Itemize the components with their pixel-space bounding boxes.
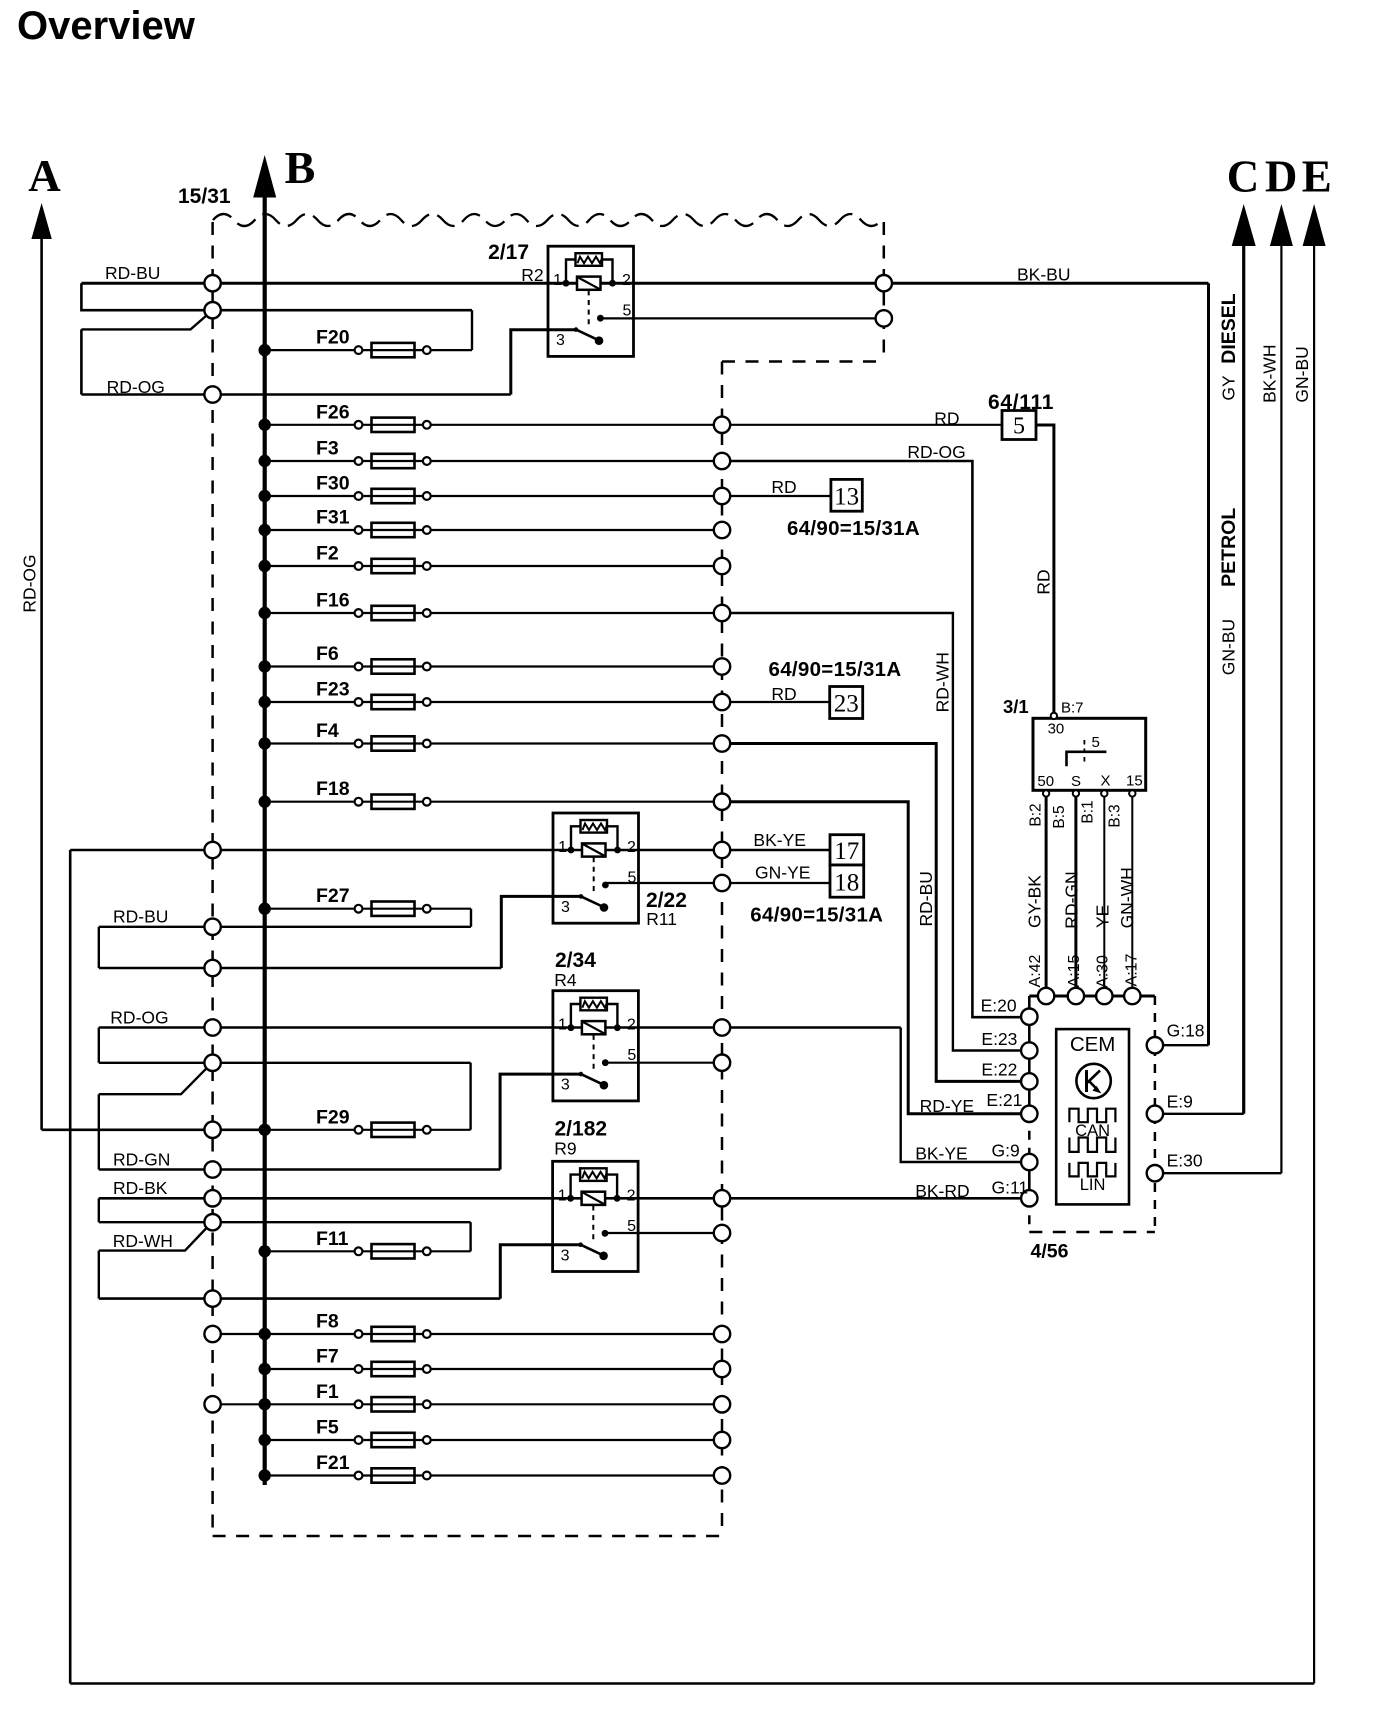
wire RD from 64/111:5 to ignition switch 3/1 B:7: [1036, 425, 1054, 713]
wire BK-BU down right side: [1207, 283, 1210, 1045]
fuse F30: [355, 492, 363, 500]
svg-text:5: 5: [627, 1218, 636, 1235]
svg-text:18: 18: [834, 870, 859, 897]
node fusebox right pass-through (F16): [714, 605, 730, 621]
junction bus B / F7: [259, 1363, 271, 1375]
CEM 4/56 dashed boundary: [1029, 995, 1155, 998]
immobilizer K symbol: [1076, 1064, 1110, 1098]
svg-text:F2: F2: [316, 543, 339, 565]
CEM pin E:30: [1147, 1165, 1163, 1181]
node fusebox right pass-through (F26): [714, 417, 730, 433]
node fusebox right pass-through (F21): [714, 1467, 730, 1483]
wire fuse F20 row: [265, 349, 472, 351]
wire RD-BU U-turn: [98, 927, 100, 968]
junction bus B / F27: [259, 903, 271, 915]
node 15/31 pass-through (2/182 pin3 row): [204, 1290, 220, 1306]
svg-text:RD-OG: RD-OG: [107, 377, 165, 397]
svg-text:64/90=15/31A: 64/90=15/31A: [769, 658, 902, 681]
svg-text:RD-BU: RD-BU: [916, 871, 936, 926]
wire BK-BU into CEM G:18: [1155, 1044, 1209, 1046]
wire arrow E (GN-BU) vertical: [1313, 243, 1315, 1684]
CEM pin A:42: [1038, 988, 1054, 1004]
svg-text:64/90=15/31A: 64/90=15/31A: [787, 517, 920, 540]
wire RD-BU row to relay 2/17 pins 1-2 and BK-BU to right: [81, 282, 1208, 285]
node 15/31 pass-through (2/17 pin1 row): [204, 275, 220, 291]
wire RD-GN riser to relay 2/34 pin 3: [500, 1074, 581, 1169]
svg-text:F16: F16: [316, 590, 350, 612]
fusebox 15/31 dashed left edge: [211, 222, 214, 1536]
wire link down to RD-GN row: [98, 1094, 100, 1169]
svg-text:B:2: B:2: [1028, 803, 1045, 826]
svg-text:RD-OG: RD-OG: [110, 1007, 168, 1027]
wire F20 output riser: [471, 310, 473, 350]
relay 2/182 R9 box: [553, 1161, 639, 1271]
svg-text:F20: F20: [316, 327, 350, 349]
node fusebox right pass-through (F7): [714, 1361, 730, 1377]
node fusebox right pass-through (F4): [714, 735, 730, 751]
node fusebox right pass-through (2/34 row): [714, 1019, 730, 1035]
svg-text:F5: F5: [316, 1417, 339, 1439]
LIN symbol: [1069, 1163, 1115, 1177]
svg-text:BK-YE: BK-YE: [753, 830, 806, 850]
svg-text:F21: F21: [316, 1452, 350, 1474]
node 15/31 pass-through (RD-GN): [204, 1161, 220, 1177]
wire 3/1 pin 15 to CEM A:17: [1131, 793, 1133, 988]
svg-text:Overview: Overview: [17, 4, 196, 48]
fuse F21: [355, 1472, 363, 1480]
svg-text:RD-BU: RD-BU: [105, 263, 160, 283]
svg-text:BK-WH: BK-WH: [1259, 345, 1279, 403]
wire CEM E:9 to C: [1155, 1113, 1244, 1115]
svg-text:50: 50: [1037, 773, 1054, 790]
svg-text:LIN: LIN: [1080, 1176, 1106, 1194]
power arrow B (15/31 bus): [253, 155, 276, 198]
wire fuse F21 row: [265, 1474, 722, 1476]
svg-text:GY: GY: [1219, 375, 1239, 401]
svg-text:B:5: B:5: [1051, 805, 1068, 828]
wire A feed (RD-OG) vertical: [40, 237, 43, 1130]
svg-text:R2: R2: [521, 265, 543, 285]
svg-text:PETROL: PETROL: [1218, 508, 1240, 587]
svg-text:E:9: E:9: [1167, 1092, 1193, 1112]
svg-text:1: 1: [558, 1187, 567, 1204]
fusebox dashed upper right edge: [883, 222, 886, 362]
terminal box 18: [830, 865, 864, 897]
CEM pin E:23: [1021, 1042, 1037, 1058]
svg-text:E:22: E:22: [981, 1060, 1017, 1080]
node fusebox right pass-through (2/182 row): [714, 1190, 730, 1206]
junction bus B / F1: [259, 1398, 271, 1410]
node fusebox right pass-through (F6): [714, 658, 730, 674]
svg-text:15: 15: [1126, 773, 1143, 790]
svg-text:2: 2: [627, 1187, 636, 1204]
svg-text:YE: YE: [1093, 905, 1113, 928]
svg-text:F29: F29: [316, 1106, 350, 1128]
wire RD-BU from F4 to CEM E:22: [722, 744, 1029, 1082]
junction bus B / F26: [259, 419, 271, 431]
junction bus B / F16: [259, 607, 271, 619]
svg-text:RD-BU: RD-BU: [113, 907, 168, 927]
svg-text:3: 3: [561, 1077, 570, 1094]
svg-text:RD: RD: [1034, 569, 1054, 594]
svg-text:BK-RD: BK-RD: [915, 1181, 969, 1201]
node fusebox right pass-through (2/22 pin5 row): [714, 875, 730, 891]
relay 2/34 R4 box: [553, 991, 639, 1101]
svg-text:4/56: 4/56: [1031, 1241, 1069, 1263]
wire RD-YE from F18 to CEM E:21: [722, 802, 1029, 1114]
junction bus B / F6: [259, 660, 271, 672]
svg-text:64/90=15/31A: 64/90=15/31A: [750, 904, 883, 927]
node fusebox right pass-through (F5): [714, 1432, 730, 1448]
svg-text:RD-GN: RD-GN: [1062, 871, 1082, 928]
CEM pin G:18: [1147, 1037, 1163, 1053]
node 15/31 pass-through (F11 return): [204, 1214, 220, 1230]
junction bus B / F23: [259, 696, 271, 708]
fuse F20: [355, 346, 363, 354]
node fusebox right pass-through (F18): [714, 794, 730, 810]
svg-text:2: 2: [627, 839, 636, 856]
wire riser to relay 2/182 pin 3: [500, 1245, 581, 1299]
power arrow A: [31, 203, 51, 239]
svg-text:13: 13: [834, 484, 859, 511]
fuse F27: [355, 905, 363, 913]
node fusebox right pass-through (F3): [714, 453, 730, 469]
wire RD-WH from F16 to CEM E:23: [722, 613, 1029, 1051]
connector 64/111 pin 5 box: [1002, 411, 1036, 440]
wire link down to relay 2/182 pin3 row: [98, 1251, 100, 1299]
wire fuse F29 row: [265, 1129, 471, 1131]
fusebox dashed bottom edge: [213, 1535, 722, 1538]
wire fuse F2 row: [265, 565, 722, 567]
svg-text:F4: F4: [316, 720, 339, 742]
CEM pin A:17: [1124, 988, 1140, 1004]
svg-text:F8: F8: [316, 1311, 339, 1333]
wire A feed to F29 row: [42, 1129, 265, 1132]
terminal box 13: [831, 479, 862, 511]
svg-text:BK-YE: BK-YE: [915, 1144, 968, 1164]
power arrow E: [1303, 204, 1326, 246]
wire RD-OG row to relay 2/34 pins 1-2: [99, 1026, 901, 1029]
node 15/31 pass-through (F20 return): [204, 302, 220, 318]
svg-text:B: B: [285, 142, 316, 193]
svg-text:RD-YE: RD-YE: [920, 1096, 974, 1116]
wire BK-YE from relay 2/34 to CEM G:9: [901, 1028, 1030, 1163]
junction bus B / F18: [259, 796, 271, 808]
node 15/31 pass-through (F8): [204, 1326, 220, 1342]
svg-text:2/182: 2/182: [555, 1117, 608, 1140]
wire fuse F11 row: [265, 1250, 471, 1252]
wire arrow C (GN-BU PETROL / GY DIESEL) vertical: [1242, 243, 1245, 1114]
CEM pin E:22: [1021, 1073, 1037, 1089]
CAN symbol: [1069, 1109, 1115, 1123]
CEM pin E:21: [1021, 1106, 1037, 1122]
wire riser to relay 2/22 pin 3: [501, 896, 581, 968]
svg-text:A:42: A:42: [1027, 954, 1044, 987]
wire RD-BK U-turn: [98, 1198, 100, 1222]
svg-text:R9: R9: [554, 1139, 576, 1159]
junction bus B / F30: [259, 490, 271, 502]
wire RD-OG riser to relay 2/17 pin 3: [511, 330, 577, 395]
node fusebox right pass-through (2/34 pin5): [714, 1055, 730, 1071]
node fusebox right pass-through (F30): [714, 488, 730, 504]
CEM pin E:9: [1147, 1106, 1163, 1122]
svg-text:F11: F11: [316, 1228, 349, 1250]
wire relay 2/17 pin 5 stub: [600, 317, 883, 319]
svg-text:F23: F23: [316, 679, 350, 701]
node 15/31 pass-through (RD-BU): [204, 919, 220, 935]
wire fuse F1 row: [213, 1403, 722, 1405]
svg-text:B:7: B:7: [1061, 700, 1084, 717]
svg-text:17: 17: [834, 838, 859, 865]
CEM pin E:20: [1021, 1009, 1037, 1025]
CEM pin G:9: [1021, 1154, 1037, 1170]
svg-text:R4: R4: [554, 970, 577, 990]
svg-text:5: 5: [628, 870, 637, 887]
svg-text:RD: RD: [934, 409, 959, 429]
wire row to relay 2/22 pin 3: [99, 967, 502, 970]
relay 2/17 R2 box: [548, 246, 634, 356]
svg-text:RD-OG: RD-OG: [20, 554, 40, 612]
svg-text:A:17: A:17: [1123, 953, 1140, 986]
CEM pin A:15: [1068, 988, 1084, 1004]
fuse F6: [355, 663, 363, 671]
svg-text:F18: F18: [316, 778, 350, 800]
wire fuse F5 row: [265, 1439, 722, 1441]
svg-text:G:11: G:11: [992, 1178, 1029, 1198]
wire link diagonal at 15/31 connector: [81, 316, 206, 330]
junction bus B / F11: [259, 1245, 271, 1257]
fuse F11: [355, 1247, 363, 1255]
node 15/31 pass-through (F1): [204, 1396, 220, 1412]
svg-text:F27: F27: [316, 885, 350, 907]
svg-text:E: E: [1302, 152, 1332, 202]
node pass-through (2/17 pin2 row): [876, 275, 892, 291]
wire fuse F7 row: [265, 1368, 722, 1370]
junction bus B / F5: [259, 1434, 271, 1446]
fuse F1: [355, 1400, 363, 1408]
svg-text:2: 2: [622, 272, 631, 289]
svg-text:GN-BU: GN-BU: [1292, 346, 1312, 402]
svg-text:23: 23: [834, 691, 859, 718]
fuse F29: [355, 1126, 363, 1134]
wire RD-BU row (F27 return): [99, 926, 471, 928]
wire link down to RD-OG row: [80, 329, 83, 394]
node fusebox right pass-through (2/22 pin1 row): [714, 842, 730, 858]
fuse F26: [355, 421, 363, 429]
svg-text:E:21: E:21: [986, 1090, 1022, 1110]
svg-text:B:3: B:3: [1107, 804, 1124, 827]
svg-text:30: 30: [1048, 721, 1065, 738]
fusebox dashed right edge: [721, 362, 724, 1537]
wire relay 2/34 pin 5 stub: [605, 1062, 722, 1064]
svg-text:F30: F30: [316, 473, 350, 495]
svg-text:R11: R11: [646, 909, 677, 929]
wire F27 drop to RD-BU row: [470, 909, 472, 927]
wire fuse F4 row: [265, 742, 722, 744]
svg-text:F7: F7: [316, 1346, 339, 1368]
wire RD-OG row: [81, 393, 510, 396]
wire fuse F26 row: [265, 424, 722, 426]
svg-text:A: A: [28, 151, 61, 201]
wire fuse F6 row: [265, 665, 722, 667]
svg-text:5: 5: [1013, 414, 1025, 440]
svg-text:D: D: [1265, 152, 1298, 202]
wire F11 return row: [99, 1221, 471, 1223]
node 15/31 pass-through (A feed): [204, 1122, 220, 1138]
svg-text:F31: F31: [316, 507, 350, 529]
svg-text:GN-BU: GN-BU: [1219, 619, 1239, 675]
svg-text:3/1: 3/1: [1003, 696, 1029, 717]
wire RD-OG from F3 to CEM E:20: [722, 461, 1029, 1017]
power arrow D: [1270, 204, 1293, 246]
power arrow C: [1232, 204, 1256, 246]
wire fuse F18 row: [265, 801, 722, 803]
svg-text:GY-BK: GY-BK: [1025, 875, 1045, 928]
wire RD-OG U-turn: [98, 1028, 100, 1063]
wire row to relay 2/182 pin 3: [99, 1297, 501, 1300]
svg-text:A:15: A:15: [1066, 954, 1083, 987]
fuse F5: [355, 1436, 363, 1444]
svg-text:2: 2: [627, 1017, 636, 1034]
svg-text:RD-GN: RD-GN: [113, 1149, 170, 1169]
svg-text:X: X: [1101, 773, 1111, 790]
node fusebox right pass-through (F31): [714, 522, 730, 538]
wire fuse F3 row: [265, 460, 722, 462]
fuse F31: [355, 526, 363, 534]
wire RD-GN row: [99, 1168, 500, 1171]
svg-text:G:18: G:18: [1167, 1021, 1205, 1041]
wire fuse F16 row: [265, 612, 722, 614]
svg-text:RD: RD: [771, 684, 796, 704]
svg-text:RD-OG: RD-OG: [907, 442, 965, 462]
fusebox wavy top edge: [213, 214, 882, 226]
wire fuse F23 row: [265, 701, 722, 703]
bus 15/31 (B) vertical: [263, 195, 267, 1485]
junction bus B / F31: [259, 524, 271, 536]
node fusebox right pass-through (F1): [714, 1396, 730, 1412]
svg-text:RD-WH: RD-WH: [933, 652, 953, 712]
wire 3/1 pin 50 to CEM A:42: [1045, 793, 1048, 988]
svg-text:E:20: E:20: [981, 996, 1017, 1016]
terminal box 17: [830, 835, 864, 865]
relay 2/17 internals: [566, 260, 576, 284]
CEM inner module box: [1056, 1029, 1129, 1204]
wire F29 output riser: [469, 1063, 471, 1130]
wire relay 2/22 pin 5 to terminal 18: [605, 882, 830, 884]
svg-text:1: 1: [553, 272, 562, 289]
node 15/31 pass-through (RD-BK): [204, 1190, 220, 1206]
svg-text:F6: F6: [316, 643, 339, 665]
node fusebox right pass-through (F8): [714, 1326, 730, 1342]
wire arrow D (BK-WH) vertical: [1280, 243, 1282, 1173]
wire F11 output riser: [469, 1222, 471, 1251]
junction bus B / F29: [259, 1124, 271, 1136]
junction bus B / F20: [259, 344, 271, 356]
svg-text:5: 5: [1092, 734, 1100, 751]
svg-text:F3: F3: [316, 438, 339, 460]
node 15/31 pass-through (RD-OG): [204, 386, 220, 402]
wire RD-BU left U-turn: [81, 283, 472, 310]
fuse F2: [355, 562, 363, 570]
svg-text:A:30: A:30: [1094, 955, 1111, 988]
wire fuse F30 row: [265, 495, 722, 497]
CEM pin G:11: [1021, 1190, 1037, 1206]
relay 2/22 R11 box: [553, 813, 639, 923]
svg-text:1: 1: [558, 839, 567, 856]
junction bus B / F8: [259, 1328, 271, 1340]
svg-text:RD-BK: RD-BK: [113, 1178, 168, 1198]
ignition switch 3/1 box: [1033, 718, 1146, 790]
svg-text:G:9: G:9: [992, 1141, 1020, 1161]
svg-text:F26: F26: [316, 401, 350, 423]
wire link diagonal below connector: [99, 1068, 207, 1094]
svg-text:GN-WH: GN-WH: [1117, 867, 1137, 928]
svg-text:64/111: 64/111: [988, 391, 1054, 414]
svg-text:RD: RD: [771, 477, 796, 497]
relay 2/182 internals: [571, 1175, 581, 1199]
wire GN-BU feed to relay 2/22 pin 1: [70, 849, 830, 851]
svg-text:5: 5: [627, 1047, 636, 1064]
svg-text:BK-BU: BK-BU: [1017, 264, 1070, 284]
node fusebox right pass-through (F23): [714, 694, 730, 710]
node pass-through (2/17 pin5): [876, 310, 892, 326]
node fusebox right pass-through (F2): [714, 558, 730, 574]
svg-text:1: 1: [558, 1017, 567, 1034]
junction bus B / F2: [259, 560, 271, 572]
junction bus B / F21: [259, 1469, 271, 1481]
svg-text:E:30: E:30: [1167, 1151, 1203, 1171]
wire RD-BK / BK-RD row to relay 2/182 and CEM G:11: [99, 1197, 1030, 1200]
fuse F23: [355, 698, 363, 706]
terminal box 23: [830, 687, 863, 719]
junction bus B / F3: [259, 455, 271, 467]
fusebox dashed jog horizontal: [722, 360, 884, 363]
svg-text:2/17: 2/17: [488, 241, 529, 264]
wire fuse F27 row: [265, 908, 471, 910]
svg-text:S: S: [1071, 773, 1081, 790]
node 15/31 pass-through (2/22 pin1 row): [204, 842, 220, 858]
wire F29 return row: [99, 1062, 471, 1064]
wire fuse F8 row: [213, 1333, 722, 1335]
relay 2/22 internals: [571, 826, 581, 850]
svg-text:5: 5: [623, 303, 632, 320]
wire link diagonal RD-WH: [99, 1228, 207, 1251]
svg-text:3: 3: [561, 899, 570, 916]
fuse F16: [355, 609, 363, 617]
wire CEM E:30 to D: [1155, 1172, 1282, 1174]
node fusebox right pass-through (2/182 pin5): [714, 1225, 730, 1241]
wire bottom return: [70, 1682, 1314, 1685]
junction bus B / F4: [259, 737, 271, 749]
fuse F4: [355, 740, 363, 748]
svg-text:GN-YE: GN-YE: [755, 863, 810, 883]
svg-text:3: 3: [561, 1247, 570, 1264]
wire 3/1 pin S to CEM A:15: [1074, 793, 1077, 988]
svg-text:3: 3: [556, 332, 565, 349]
svg-text:15/31: 15/31: [178, 185, 231, 208]
node 15/31 pass-through (RD-OG 2/34): [204, 1019, 220, 1035]
svg-text:F1: F1: [316, 1381, 339, 1403]
wire left return vertical: [69, 850, 72, 1684]
svg-text:DIESEL: DIESEL: [1218, 293, 1240, 364]
svg-text:RD-WH: RD-WH: [113, 1231, 173, 1251]
fuse F18: [355, 798, 363, 806]
svg-text:CEM: CEM: [1070, 1033, 1116, 1056]
node 15/31 pass-through (F29 return): [204, 1055, 220, 1071]
wire relay 2/182 pin 5 stub: [605, 1232, 722, 1234]
svg-text:C: C: [1227, 152, 1260, 202]
fuse F7: [355, 1365, 363, 1373]
